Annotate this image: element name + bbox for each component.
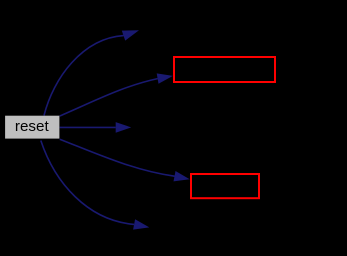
svg-text:reset: reset — [15, 118, 50, 135]
